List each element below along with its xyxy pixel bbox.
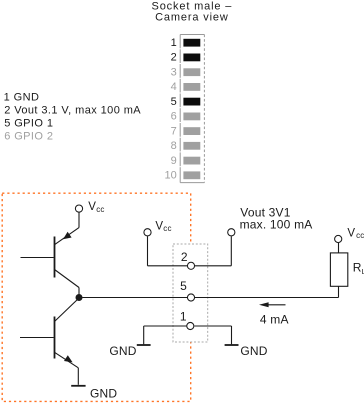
svg-text:8: 8 <box>171 140 177 152</box>
svg-text:max. 100 mA: max. 100 mA <box>240 218 313 232</box>
svg-text:6: 6 <box>171 111 177 123</box>
svg-text:4 mA: 4 mA <box>260 312 289 326</box>
svg-text:Socket male –: Socket male – <box>152 0 233 12</box>
Q2 emitter arrow (NPN) <box>64 355 73 362</box>
svg-text:4: 4 <box>171 81 177 93</box>
pin number labels <box>165 37 177 182</box>
svg-text:GND: GND <box>109 344 136 358</box>
Q1 emitter arrow (PNP) <box>63 232 72 240</box>
svg-text:GND: GND <box>90 387 117 401</box>
svg-text:2: 2 <box>171 52 177 64</box>
svg-text:5: 5 <box>171 96 177 108</box>
svg-text:V: V <box>88 201 96 213</box>
current direction arrow <box>259 302 286 307</box>
svg-text:7: 7 <box>171 125 177 137</box>
ground symbol G2 (left of pins) <box>137 344 151 346</box>
Vcc terminal V1 (top left) <box>75 201 104 214</box>
svg-text:2: 2 <box>181 250 188 264</box>
pin 3 pad <box>183 68 200 76</box>
svg-text:cc: cc <box>163 224 171 233</box>
svg-text:Camera view: Camera view <box>155 12 229 24</box>
output node junction dot <box>76 294 83 301</box>
wire pin 2 to Vout terminal <box>195 236 232 266</box>
pin function legend <box>4 92 142 143</box>
Vout terminal circle <box>228 229 235 236</box>
transistor Q1 (PNP, emitter to Vcc) <box>21 228 80 288</box>
resistor RL <box>330 253 347 286</box>
pin 1 pad <box>183 39 200 47</box>
ground symbol G1 (below Q2) <box>71 385 85 387</box>
pin 8 pad <box>183 142 200 150</box>
transistor Q2 (NPN, emitter to GND) <box>20 298 79 385</box>
svg-text:V: V <box>155 220 163 232</box>
svg-text:1: 1 <box>171 37 177 49</box>
svg-text:GND: GND <box>240 344 267 358</box>
wire pin 1 to left ground <box>144 326 187 344</box>
svg-text:9: 9 <box>171 155 177 167</box>
svg-text:5: 5 <box>180 279 187 293</box>
wire Vcc1 to Q1 emitter <box>78 212 80 227</box>
svg-text:10: 10 <box>165 170 177 182</box>
pin 1 node circle <box>187 322 194 329</box>
wire pin 5 to load resistor <box>195 287 339 298</box>
pin 5 node circle <box>187 294 194 301</box>
pin 2 pad <box>183 54 200 62</box>
svg-text:2 Vout 3.1 V, max 100 mA: 2 Vout 3.1 V, max 100 mA <box>4 105 141 117</box>
wire Q1 collector to output node <box>78 288 80 298</box>
socket pin column dotted box <box>173 244 208 342</box>
title: Socket male - Camera view <box>152 0 233 23</box>
svg-text:1: 1 <box>180 310 187 324</box>
pin 4 pad <box>183 83 200 91</box>
wire Vcc2 to pin 2 <box>148 236 188 266</box>
Vcc terminal V3 (right) <box>335 228 364 243</box>
pin 2 node circle <box>187 262 194 269</box>
svg-text:cc: cc <box>356 231 364 240</box>
pin 10 pad <box>183 171 200 179</box>
svg-text:R: R <box>353 260 362 274</box>
wire output node to pin 5 <box>82 297 187 299</box>
svg-text:cc: cc <box>96 205 104 214</box>
connector J1 body outline <box>180 35 204 183</box>
pin 7 pad <box>183 127 200 135</box>
wire pin 1 to right ground <box>194 326 231 344</box>
pin 9 pad <box>183 157 200 165</box>
svg-text:5 GPIO 1: 5 GPIO 1 <box>4 117 53 129</box>
Vcc terminal V2 (middle) <box>144 220 172 236</box>
ground symbol G3 (right of pins) <box>225 344 239 346</box>
svg-text:3: 3 <box>171 67 177 79</box>
pin 5 pad <box>183 98 200 106</box>
RL label <box>353 260 364 276</box>
pin 6 pad <box>183 113 200 121</box>
svg-text:V: V <box>347 228 355 240</box>
wire Vcc3 to resistor <box>338 243 340 253</box>
svg-text:6 GPIO 2: 6 GPIO 2 <box>4 130 53 142</box>
dashed camera-internal boundary box <box>2 193 191 401</box>
Vout value label <box>240 206 313 232</box>
svg-text:1 GND: 1 GND <box>4 92 40 104</box>
